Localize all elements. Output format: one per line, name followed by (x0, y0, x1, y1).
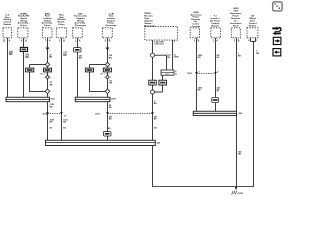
wire ground bottom run (152, 186, 254, 188)
wire K4 to D5 (107, 72, 109, 75)
wire W6 upper (107, 38, 109, 63)
wire label W3 mid (50, 82, 53, 86)
wire D6 to bar G201 (107, 94, 109, 98)
node label col2 (18, 13, 30, 27)
svg-text:7: 7 (45, 40, 47, 42)
node label col9 (210, 15, 220, 27)
svg-text:B3: B3 (108, 128, 111, 130)
node label col5 (74, 12, 87, 27)
wire W10b below G302 (236, 116, 238, 187)
wire D1 to K2 (47, 67, 49, 68)
wire W3b below G200 (47, 102, 49, 140)
svg-text:B2: B2 (63, 128, 66, 130)
wire branch left down (29, 72, 31, 92)
wire K2 to D2 (47, 72, 49, 75)
connector box U6 (102, 28, 112, 38)
wire W11 stubs (250, 38, 252, 42)
wire label W9 lower (217, 87, 221, 91)
chevron splice mark on W6 (106, 47, 109, 49)
svg-text:BK: BK (238, 56, 241, 58)
wire W9 upper (215, 38, 217, 98)
svg-text:BK: BK (50, 84, 53, 86)
svg-text:4099: 4099 (111, 97, 116, 100)
wire label W5 (79, 56, 83, 60)
node label col6 (105, 12, 116, 27)
wire W7 right pin (172, 40, 174, 70)
resistor R1 box (161, 70, 174, 75)
svg-text:1: 1 (109, 50, 110, 52)
svg-text:BK: BK (109, 119, 112, 121)
splice diamond D6 (105, 89, 110, 94)
svg-text:4: 4 (21, 39, 23, 42)
wire label W2 (25, 55, 30, 59)
wire label W8 lower (198, 86, 203, 91)
node label col8 (190, 12, 202, 28)
wire label W6b lower (109, 116, 113, 121)
wire W4 full (61, 38, 63, 141)
module K4 right box (103, 68, 111, 72)
connector box U7 wide (145, 27, 178, 40)
wire W3 upper (47, 38, 49, 63)
svg-text:B4: B4 (154, 127, 157, 130)
wire K6 down to S2 (162, 85, 164, 92)
inline connector arrow on W4 (60, 112, 63, 114)
svg-text:BK: BK (167, 57, 170, 59)
svg-text:Panel: Panel (233, 26, 239, 28)
svg-text:BK: BK (154, 103, 157, 105)
svg-text:B1: B1 (50, 128, 53, 130)
connector box U2 (18, 28, 28, 38)
svg-text:B: B (25, 40, 27, 42)
wire W7b below S2 (152, 94, 154, 140)
wire branch D1 left (30, 64, 46, 66)
dashed inline connector link C3 (197, 73, 216, 75)
module K1 left box (26, 68, 34, 72)
connector box U10 (231, 28, 240, 38)
svg-text:Module: Module (211, 25, 219, 27)
module K6 box (159, 80, 167, 85)
wire label W3 (49, 55, 52, 59)
icon resize button (273, 2, 282, 11)
ground bar G201 (75, 97, 110, 101)
node label col7 (144, 13, 155, 28)
wire W2 upper (23, 38, 25, 48)
chevron splice mark on W3 (46, 47, 49, 49)
svg-text:BK: BK (109, 83, 112, 85)
pin label U7 text (154, 41, 164, 46)
icon next page button (273, 37, 281, 44)
svg-text:BN: BN (49, 57, 52, 59)
fuse F1 on W2 (20, 47, 27, 51)
svg-text:RD: RD (198, 57, 201, 59)
svg-text:3: 3 (194, 40, 196, 42)
splice circle S2 (150, 90, 154, 94)
wire D2 to D3 (47, 79, 49, 89)
ground bar G302 (193, 111, 236, 115)
svg-text:ALC: ALC (166, 72, 170, 75)
svg-text:BK: BK (238, 154, 241, 156)
wire R1 to K6 (162, 75, 164, 80)
ground symbol hatch (232, 191, 237, 195)
ground bar G300 (46, 140, 156, 145)
svg-text:2: 2 (59, 40, 61, 42)
connector box U11 (247, 28, 258, 38)
connector box U3 (43, 28, 52, 38)
svg-text:2: 2 (104, 77, 105, 79)
svg-text:BL: BL (217, 57, 220, 59)
svg-text:A1: A1 (64, 114, 66, 117)
svg-text:12: 12 (3, 40, 6, 42)
svg-text:B: B (217, 72, 219, 74)
wire W7c below G300 (152, 145, 154, 186)
svg-text:Ω: Ω (175, 73, 177, 75)
module K2 right box (44, 68, 52, 72)
svg-text:BK: BK (109, 107, 112, 109)
svg-text:BK: BK (50, 106, 53, 108)
wire label W6b (109, 105, 112, 109)
splice diamond D3 (45, 89, 50, 94)
ground arrow (235, 187, 237, 190)
svg-text:BN: BN (79, 58, 82, 60)
svg-text:Passenger: Passenger (105, 25, 116, 27)
svg-text:1: 1 (213, 40, 215, 42)
node label col10 (230, 7, 242, 28)
svg-text:1: 1 (75, 40, 77, 42)
wire label W7b lower (154, 116, 158, 121)
svg-text:A: A (216, 39, 218, 42)
wire label W7 right (174, 55, 179, 59)
wire W10 full (236, 38, 238, 112)
svg-text:C304: C304 (187, 72, 193, 75)
svg-text:Module: Module (249, 25, 257, 27)
wire W5 lower (77, 52, 79, 98)
svg-text:BN: BN (9, 54, 13, 56)
wire W2 lower (23, 52, 25, 98)
module K3 left box (85, 68, 93, 72)
splice circle S1 (150, 53, 154, 57)
svg-text:BK: BK (256, 53, 259, 55)
wire label branch (167, 55, 171, 59)
wire label W1 (9, 52, 14, 56)
inline connector comp on W6b (103, 132, 111, 137)
svg-text:A: A (49, 39, 51, 42)
connector box U9 (211, 28, 221, 38)
svg-text:BN: BN (63, 55, 67, 57)
svg-text:1: 1 (50, 77, 51, 79)
svg-text:Module: Module (3, 24, 11, 26)
ground bar G200 (6, 97, 50, 101)
svg-text:1: 1 (110, 77, 111, 79)
svg-text:441: 441 (157, 142, 161, 145)
connector box U4 (56, 28, 66, 38)
dashed inline connector link C1 (48, 113, 62, 115)
wire label W8 (198, 55, 203, 59)
svg-text:B: B (63, 40, 65, 42)
wire label W7b (154, 101, 157, 105)
wire W9 to bar (215, 103, 217, 112)
svg-text:B: B (109, 40, 111, 42)
wire label W9 (217, 55, 220, 59)
svg-text:1: 1 (49, 50, 50, 52)
svg-text:BN: BN (25, 57, 29, 59)
svg-text:3: 3 (105, 40, 107, 42)
svg-text:A: A (9, 39, 11, 42)
svg-text:B: B (198, 40, 200, 42)
wire label W10b (238, 151, 242, 155)
wire W1 from U1 to ground bar G200 (7, 38, 9, 98)
inline connector arrow on W8 (195, 72, 198, 74)
svg-text:BK: BK (50, 122, 53, 124)
svg-text:A: A (79, 39, 81, 42)
node label col11 (249, 14, 258, 27)
splice diamond D4 (105, 62, 109, 67)
dashed inline connector link C2 (108, 113, 153, 115)
resistor R1 label (175, 70, 177, 75)
svg-text:6: 6 (174, 41, 176, 43)
inline connector arrow on W9 (214, 72, 217, 74)
svg-text:G303: G303 (238, 193, 244, 195)
wire label W11 (256, 51, 259, 55)
splice diamond D1 (45, 62, 49, 67)
node label col3 (42, 12, 54, 27)
wire W6b to G300 (107, 136, 109, 140)
wire W7 left pin (152, 40, 154, 53)
wire label W3b (50, 104, 55, 108)
wire D4 to K4 (107, 67, 109, 68)
inline connector arrow on W6b (106, 112, 109, 114)
svg-text:Driver: Driver (20, 25, 26, 27)
connector box U5 (73, 28, 83, 38)
wire label W4 lower (63, 119, 68, 123)
wire D5 to D6 (107, 79, 109, 89)
node label col1 (3, 14, 12, 26)
inline connector arrow on W3b (46, 112, 49, 114)
svg-text:499: 499 (239, 112, 243, 115)
wire branch S1 right (155, 54, 167, 56)
svg-text:B: B (238, 40, 240, 42)
splice diamond D5 small (106, 75, 110, 79)
wire branch left down mid (89, 72, 91, 92)
splice diamond D2 small (46, 75, 50, 79)
inline connector comp on W5 (73, 48, 81, 52)
svg-text:E: E (248, 40, 250, 42)
wire W8 full (196, 38, 198, 112)
module K5 box (149, 80, 157, 85)
svg-text:BK: BK (198, 90, 201, 92)
connector box U1 Left Rear Seating Control Module (3, 28, 12, 38)
svg-text:2: 2 (234, 40, 236, 42)
wire D3 to bar G200 (47, 94, 49, 98)
svg-text:BK: BK (154, 119, 157, 121)
svg-text:BN: BN (109, 57, 112, 59)
wire label W10 (238, 53, 241, 57)
wire label W3b lower (50, 119, 55, 123)
wire label W6 mid (109, 81, 112, 85)
svg-text:C305: C305 (95, 113, 101, 115)
wire W5 upper (77, 38, 79, 48)
wire W11 full (253, 42, 255, 187)
wire S1 to K5 (152, 57, 154, 80)
wire label W4 (63, 53, 68, 57)
icon prev page button (273, 49, 281, 56)
svg-text:4 DK BLU: 4 DK BLU (154, 43, 164, 46)
wire branch D4 left (90, 64, 106, 66)
inline connector arrow on W7b (151, 112, 154, 114)
icon curved arrows (272, 27, 281, 35)
wire W6b below G201 (107, 102, 109, 132)
connector box U8 (190, 28, 199, 38)
svg-text:2: 2 (45, 77, 46, 79)
wire K5 to S2 (152, 85, 154, 90)
svg-text:F: F (256, 40, 258, 42)
svg-text:Passenger: Passenger (75, 25, 86, 27)
wire label W6 (109, 55, 113, 59)
svg-text:4111: 4111 (51, 98, 56, 101)
inline connector comp on W9 (212, 98, 219, 103)
svg-text:Driver: Driver (58, 24, 64, 26)
svg-text:Driver: Driver (44, 25, 50, 27)
node label col4 (57, 15, 66, 26)
svg-text:GRN: GRN (174, 57, 179, 59)
